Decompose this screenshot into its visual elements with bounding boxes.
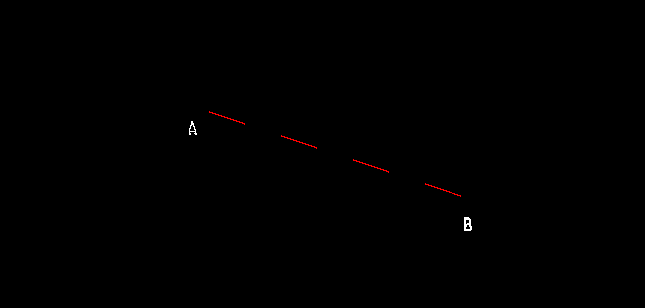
node B label: [464, 217, 472, 231]
node A label: [189, 121, 197, 135]
wire: dashed red line segment from node A to node B: [209, 111, 461, 197]
wire dash 1: [209, 111, 245, 125]
wire dash 4: [425, 183, 461, 197]
wire dash 3: [353, 159, 389, 173]
wire dash 2: [281, 135, 317, 149]
